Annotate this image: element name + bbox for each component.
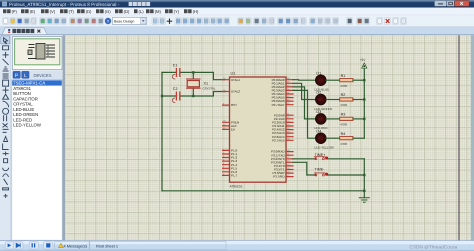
svg-text:L: L — [24, 73, 27, 79]
svg-text:RST: RST — [231, 103, 237, 107]
svg-text:R4: R4 — [341, 132, 346, 136]
svg-text:D1: D1 — [316, 71, 321, 75]
wire P3.2 to TIME+ button — [293, 158, 315, 160]
wire D1 to R1 — [326, 79, 340, 81]
minimap — [12, 37, 62, 70]
svg-text:D4: D4 — [316, 129, 321, 133]
svg-text:LED-BLUE: LED-BLUE — [13, 107, 34, 112]
toolbar — [0, 15, 474, 27]
svg-text:AT89C51: AT89C51 — [13, 86, 31, 91]
svg-text:AT89C51: AT89C51 — [230, 185, 243, 189]
splitter — [63, 35, 66, 240]
wire GND left rail — [161, 72, 163, 190]
wire TIME- to gnd rail — [328, 174, 364, 176]
svg-text:D2: D2 — [316, 91, 321, 95]
svg-text:LED-YELLOW: LED-YELLOW — [13, 123, 42, 128]
node rail junction — [363, 79, 365, 81]
svg-text:+5V: +5V — [360, 58, 367, 62]
wire +5V rail — [363, 69, 365, 139]
wire D2 to R2 — [326, 99, 340, 101]
op chip U1 AT89C51 — [230, 72, 287, 189]
svg-text:Base Design: Base Design — [114, 20, 134, 24]
wire D4 to R4 — [326, 137, 340, 139]
menu bar — [0, 8, 474, 16]
sheet border line — [458, 35, 460, 240]
canvas grid — [65, 35, 471, 240]
svg-text:(M): (M) — [155, 9, 162, 14]
svg-text:CRYSTAL: CRYSTAL — [203, 86, 216, 90]
node gnd junction bottom — [363, 190, 365, 192]
LED D3 — [314, 110, 328, 130]
wire XTAL1 row — [162, 72, 225, 79]
svg-text:(L): (L) — [139, 9, 145, 14]
svg-text:P1.7: P1.7 — [231, 174, 238, 178]
svg-text:U1: U1 — [231, 72, 236, 76]
svg-text:C1: C1 — [173, 64, 178, 68]
svg-text:P2.7/A15: P2.7/A15 — [272, 138, 285, 142]
svg-text:XTAL1: XTAL1 — [231, 78, 240, 82]
wire TIME+ to gnd rail — [328, 158, 364, 160]
svg-text:R2: R2 — [341, 93, 346, 97]
crystal X1 — [187, 71, 216, 97]
svg-text:470R: 470R — [340, 84, 348, 88]
status bar — [0, 240, 474, 251]
wire R4 to +5V rail — [353, 137, 364, 139]
svg-text:(T): (T) — [69, 9, 75, 14]
resistor R4 — [340, 132, 353, 146]
svg-text:P3.7/RD: P3.7/RD — [273, 175, 285, 179]
wire P0.3 to D4 — [293, 90, 316, 138]
wire bottom ground run — [162, 190, 364, 192]
wire D3 to R3 — [326, 118, 340, 120]
wire P0.2 to D3 — [293, 87, 316, 119]
P L DEVICES header — [12, 71, 62, 80]
LED D4 — [314, 129, 334, 149]
button TIME- — [314, 167, 328, 176]
svg-text:(V): (V) — [50, 9, 56, 14]
chip left pins — [223, 80, 230, 176]
svg-text:7SEG-MPX1-CA: 7SEG-MPX1-CA — [13, 81, 45, 86]
svg-text:CAPACITOR: CAPACITOR — [13, 96, 38, 101]
wire P0.1 to D2 — [293, 83, 316, 99]
chip right pins — [286, 80, 293, 177]
svg-text:LED-RED: LED-RED — [13, 117, 32, 122]
node rail junction — [363, 98, 365, 100]
tab bar — [0, 27, 474, 35]
node rail junction — [363, 118, 365, 120]
svg-text:4 Message(s): 4 Message(s) — [64, 243, 88, 248]
svg-text:(G): (G) — [105, 9, 112, 14]
wire R1 to +5V rail — [353, 79, 364, 81]
resistor R1 — [340, 74, 353, 88]
svg-text:470R: 470R — [340, 103, 348, 107]
svg-text:(D): (D) — [86, 9, 92, 14]
svg-text:EA: EA — [231, 128, 235, 132]
wire P0.0 to D1 — [293, 79, 316, 82]
ground symbol — [359, 198, 369, 202]
capacitor C2 — [172, 87, 179, 102]
svg-text:TIME-: TIME- — [315, 167, 326, 171]
svg-text:LED-YELLOW: LED-YELLOW — [314, 146, 334, 150]
device list — [12, 80, 62, 241]
svg-text:DEVICES: DEVICES — [34, 73, 52, 78]
wire gnd rail vertical — [363, 159, 365, 198]
svg-text:D3: D3 — [316, 110, 321, 114]
svg-text:(F): (F) — [12, 9, 18, 14]
wire R3 to +5V rail — [353, 118, 364, 120]
node junction C2/rail — [161, 95, 163, 97]
left tool strip — [0, 35, 11, 240]
wire R2 to +5V rail — [353, 99, 364, 101]
svg-text:470R: 470R — [340, 142, 348, 146]
svg-text:P: P — [15, 73, 18, 79]
wire XTAL2 row — [162, 92, 225, 97]
svg-text:CRYSTAL: CRYSTAL — [13, 102, 33, 107]
resistor R3 — [340, 113, 353, 127]
svg-text:(E): (E) — [30, 9, 36, 14]
svg-text:CSDN @ThreadCocoa: CSDN @ThreadCocoa — [410, 245, 458, 250]
capacitor C1 — [172, 64, 179, 79]
svg-text:C2: C2 — [173, 87, 178, 91]
wire P3.3 to TIME- button — [293, 162, 315, 175]
svg-text:Proteus_AT89C51_Interrupt - Pr: Proteus_AT89C51_Interrupt - Proteus 8 Pr… — [9, 2, 120, 7]
scrollbar strip — [471, 35, 474, 240]
svg-text:(D): (D) — [124, 9, 130, 14]
LED D1 — [314, 71, 329, 91]
svg-text:X1: X1 — [204, 82, 209, 86]
resistor R2 — [340, 93, 353, 107]
svg-text:BUTTON: BUTTON — [13, 91, 31, 96]
svg-text:(H): (H) — [193, 9, 199, 14]
svg-text:Root sheet 1: Root sheet 1 — [96, 243, 118, 248]
svg-text:R3: R3 — [341, 113, 346, 117]
svg-text:XTAL2: XTAL2 — [231, 90, 240, 94]
title bar — [0, 0, 474, 8]
button TIME+ — [314, 153, 328, 160]
svg-text:R1: R1 — [341, 74, 346, 78]
svg-text:470R: 470R — [340, 123, 348, 127]
LED D2 — [314, 91, 332, 111]
svg-text:LED-GREEN: LED-GREEN — [13, 112, 38, 117]
left panel bg — [11, 35, 65, 240]
power +5V terminal — [360, 58, 367, 68]
window buttons — [435, 1, 447, 7]
svg-text:(Y): (Y) — [174, 9, 180, 14]
node gnd junction TIME- — [363, 174, 365, 176]
svg-text:P0.7/AD7: P0.7/AD7 — [272, 103, 285, 107]
